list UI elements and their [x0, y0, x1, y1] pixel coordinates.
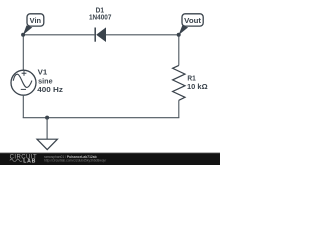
svg-text:V1: V1	[38, 68, 48, 77]
wire top-left (Vin to diode anode)	[23, 34, 95, 36]
svg-text:400 Hz: 400 Hz	[37, 85, 63, 94]
wire right vertical (Vout node to resistor)	[178, 35, 180, 66]
node Vin junction dot	[21, 33, 25, 37]
node Vout junction dot	[177, 33, 181, 37]
voltage source V1	[11, 70, 36, 95]
svg-text:http://circuitlab.com/c/2dubd5: http://circuitlab.com/c/2dubd5ky3h6d8wqv…	[44, 159, 106, 163]
watermark text	[44, 155, 106, 162]
wire left vertical (source to bottom rail)	[22, 95, 24, 118]
svg-text:LAB: LAB	[23, 159, 36, 165]
wire top-right (diode cathode to Vout)	[106, 34, 180, 36]
svg-text:10 kΩ: 10 kΩ	[187, 82, 208, 91]
svg-text:Vout: Vout	[184, 16, 201, 25]
node ground junction dot	[45, 116, 49, 120]
wire right vertical (resistor to bottom rail)	[178, 100, 180, 118]
ground	[37, 118, 57, 150]
label V1 value	[37, 68, 63, 94]
CircuitLab logo	[10, 155, 37, 165]
label Vout balloon	[179, 14, 204, 35]
svg-text:Vin: Vin	[30, 16, 42, 25]
label Vin balloon	[23, 14, 44, 35]
diode D1	[95, 27, 106, 42]
wire left vertical (Vin node down to source)	[22, 35, 24, 71]
wire bottom rail	[23, 117, 180, 119]
svg-text:1N4007: 1N4007	[89, 13, 111, 22]
label R1 value	[187, 74, 208, 91]
watermark bar	[0, 153, 220, 165]
resistor R1	[173, 65, 185, 100]
label D1 value	[89, 6, 111, 22]
